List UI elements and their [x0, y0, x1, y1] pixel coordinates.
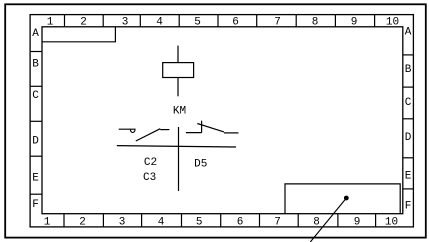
NC contact right terminal wire — [224, 132, 239, 134]
svg-text:6: 6 — [237, 217, 244, 229]
revision block rectangle top-left — [42, 27, 115, 42]
NO contact moving blade — [136, 129, 161, 141]
wire: coil KM top lead — [177, 46, 179, 63]
svg-text:E: E — [405, 171, 412, 183]
contact cross-reference divider line — [117, 146, 236, 147]
svg-text:KM: KM — [173, 105, 186, 117]
svg-text:4: 4 — [156, 17, 163, 29]
NO contact right terminal wire — [160, 129, 169, 131]
svg-text:A: A — [32, 28, 39, 40]
relay coil KM — [163, 63, 194, 78]
svg-text:A: A — [405, 27, 412, 39]
svg-text:9: 9 — [354, 217, 361, 229]
svg-text:9: 9 — [351, 17, 358, 29]
svg-text:D5: D5 — [194, 158, 207, 170]
svg-text:7: 7 — [274, 17, 281, 29]
wire: coil KM bottom lead — [177, 78, 179, 97]
top reference strip cell dividers — [65, 15, 375, 27]
svg-text:1: 1 — [47, 17, 54, 29]
svg-text:5: 5 — [196, 217, 203, 229]
right reference strip cell dividers — [403, 55, 414, 189]
top reference numbers 1-10 — [47, 17, 399, 29]
svg-text:10: 10 — [386, 17, 399, 29]
bottom reference strip cell dividers — [64, 214, 376, 227]
NC contact fixed terminal tick — [201, 121, 203, 133]
title block rectangle bottom-right — [285, 184, 400, 214]
svg-text:8: 8 — [312, 17, 319, 29]
svg-text:2: 2 — [80, 17, 87, 29]
NO contact (C2/C3) left terminal wire — [119, 128, 136, 130]
left reference strip cell dividers — [30, 52, 42, 195]
svg-text:B: B — [32, 59, 39, 71]
svg-text:3: 3 — [119, 217, 126, 229]
svg-text:F: F — [405, 200, 412, 212]
NC contact moving blade — [197, 124, 224, 132]
junction dot in title block — [344, 196, 349, 201]
bottom reference numbers 1-10 — [44, 217, 398, 229]
svg-text:10: 10 — [385, 217, 398, 229]
drawing frame zone border inner rectangle — [42, 27, 403, 214]
drawing frame zone border outer rectangle — [30, 15, 413, 227]
contact table vertical line — [178, 127, 180, 191]
NC contact (D5) left terminal wire — [186, 132, 202, 134]
svg-text:C3: C3 — [143, 172, 156, 184]
svg-text:7: 7 — [274, 217, 281, 229]
svg-text:1: 1 — [44, 217, 51, 229]
svg-text:F: F — [32, 199, 39, 211]
right reference letters A-F — [405, 27, 412, 213]
svg-text:3: 3 — [122, 17, 129, 29]
svg-text:C: C — [32, 90, 39, 102]
svg-text:8: 8 — [313, 217, 320, 229]
svg-text:6: 6 — [232, 17, 239, 29]
svg-text:5: 5 — [194, 17, 201, 29]
svg-text:C: C — [405, 97, 412, 109]
svg-text:C2: C2 — [144, 157, 157, 169]
svg-text:2: 2 — [79, 217, 86, 229]
svg-text:E: E — [32, 172, 39, 184]
svg-text:D: D — [32, 136, 39, 148]
left reference letters A-F — [32, 28, 39, 211]
svg-text:4: 4 — [158, 217, 165, 229]
svg-text:B: B — [405, 64, 412, 76]
svg-text:D: D — [405, 132, 412, 144]
leader line from dot to outside — [310, 199, 346, 242]
NO contact fixed-contact arc — [130, 130, 135, 133]
